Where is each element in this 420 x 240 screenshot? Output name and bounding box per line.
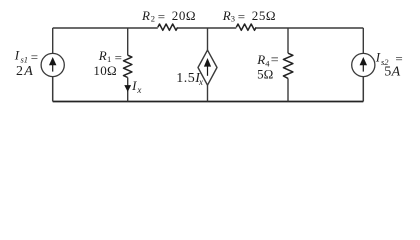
label Is2 = — [375, 50, 403, 67]
svg-text:5Ω: 5Ω — [257, 66, 273, 81]
svg-text:2: 2 — [151, 14, 155, 24]
dependent current source diamond — [198, 50, 217, 85]
arrow of dependent source — [205, 60, 210, 76]
wire branch dependent-source upper — [207, 28, 209, 50]
svg-text:R: R — [222, 8, 231, 23]
wire left upper — [52, 28, 54, 54]
wire left lower — [52, 77, 54, 102]
svg-text:2A: 2A — [16, 64, 34, 79]
svg-text:=: = — [238, 9, 245, 24]
arrow of Is1 — [50, 59, 56, 72]
resistor R4 — [283, 53, 293, 78]
wire top-middle segment — [178, 27, 237, 29]
svg-text:1.5I: 1.5I — [176, 71, 201, 86]
resistor R3 — [236, 24, 256, 30]
svg-text:I: I — [14, 47, 20, 62]
svg-text:10Ω: 10Ω — [93, 63, 117, 78]
label R1 = — [98, 48, 122, 65]
svg-text:I: I — [131, 78, 137, 93]
wire branch R4 upper — [287, 28, 289, 53]
svg-text:20Ω: 20Ω — [172, 8, 196, 23]
wire branch R4 lower — [287, 78, 289, 101]
label Ix — [131, 78, 141, 95]
label R4 = — [256, 52, 279, 68]
wire top-right segment — [256, 27, 363, 29]
current arrow Ix on R1 branch — [125, 86, 130, 91]
svg-text:=: = — [31, 50, 38, 65]
svg-text:I: I — [375, 50, 381, 65]
label 1.5Ix — [176, 71, 203, 87]
svg-text:R: R — [256, 52, 265, 67]
svg-text:25Ω: 25Ω — [252, 8, 276, 23]
wire branch R1 lower — [127, 78, 129, 102]
arrow of Is2 — [361, 59, 367, 72]
svg-text:x: x — [136, 85, 141, 95]
wire bottom — [53, 101, 364, 103]
svg-text:R: R — [98, 48, 107, 63]
wire right lower — [362, 77, 364, 102]
current source Is1 circle — [41, 53, 64, 76]
svg-text:3: 3 — [231, 14, 235, 24]
current source Is2 circle — [352, 53, 375, 76]
label Is1 = — [14, 47, 38, 64]
wire right upper — [362, 28, 364, 54]
svg-text:=: = — [158, 9, 165, 24]
label R3 = 25 ohm — [222, 8, 276, 24]
resistor R1 — [124, 55, 132, 77]
svg-text:x: x — [198, 77, 203, 87]
wire top-left segment — [53, 27, 158, 29]
label R2 = 20 ohm — [141, 8, 196, 24]
resistor R2 — [158, 24, 178, 30]
wire branch dependent-source lower — [207, 85, 209, 101]
wire branch R1 upper — [127, 28, 129, 55]
svg-text:s1: s1 — [21, 55, 29, 65]
svg-text:R: R — [141, 8, 150, 23]
svg-text:5A: 5A — [384, 64, 400, 79]
